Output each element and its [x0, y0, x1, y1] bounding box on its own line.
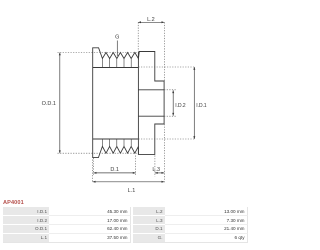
svg-text:I.D.1: I.D.1 [196, 103, 206, 109]
pulley technical drawing [0, 0, 250, 250]
I.D.2 extension lines [164, 90, 176, 116]
rim right face [137, 52, 139, 155]
svg-text:O.D.1: O.D.1 [42, 101, 56, 107]
dimension I.D.1 line [193, 67, 195, 139]
groove valley ticks top [102, 59, 131, 68]
arrowheads L.1 [93, 181, 165, 183]
arrowheads L.2 [138, 21, 164, 23]
O.D.1 extension top [58, 52, 138, 54]
pulley outer profile with poly-V grooves [93, 48, 164, 158]
bore bottom edge [138, 115, 164, 117]
L.3 extension left [154, 156, 156, 177]
L.2 extension left [137, 22, 139, 51]
dimension L.3 line [155, 172, 164, 174]
svg-text:L.1: L.1 [128, 188, 136, 194]
arrowheads O.D.1 [59, 53, 61, 154]
dashed extension lines [58, 22, 195, 182]
svg-text:L.3: L.3 [152, 167, 160, 173]
arrowheads I.D.1 [193, 67, 195, 139]
groove root line bottom [93, 138, 139, 140]
dimension I.D.2 line [172, 90, 174, 115]
groove valley ticks bottom [102, 139, 131, 146]
arrowheads D.1 [94, 172, 136, 174]
dimension L.1 line [93, 181, 165, 183]
dimension D.1 line [94, 172, 136, 174]
leader G [116, 41, 118, 57]
svg-text:G: G [115, 35, 119, 41]
svg-text:L.2: L.2 [147, 17, 155, 23]
svg-text:I.D.2: I.D.2 [175, 103, 185, 109]
L.1 extension left [92, 160, 94, 183]
I.D.1 extension lines [138, 67, 194, 139]
D.1 extension lines [94, 156, 136, 177]
svg-text:D.1: D.1 [110, 167, 119, 173]
arrowheads L.3 [155, 172, 164, 174]
product code AP4001 [3, 200, 24, 206]
groove root line top [93, 67, 139, 69]
L.2/L.3/L.1 shared right extension [163, 22, 165, 182]
bore top edge [138, 89, 164, 91]
dimension O.D.1 line [59, 53, 61, 154]
arrowheads I.D.2 [172, 90, 174, 115]
spec table left [3, 207, 131, 242]
dimension L.2 line [138, 21, 164, 23]
spec table right [133, 207, 248, 242]
O.D.1 extension bottom [58, 152, 138, 154]
